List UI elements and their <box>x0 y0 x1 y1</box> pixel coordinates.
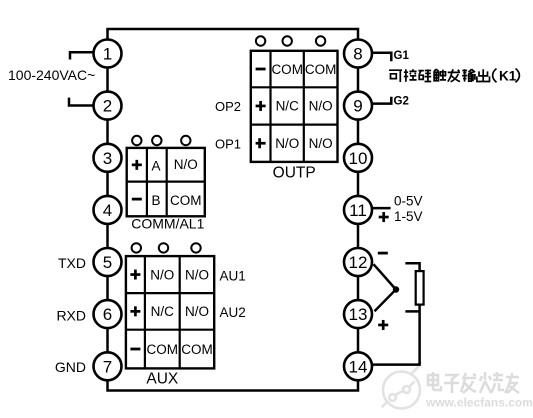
svg-text:13: 13 <box>349 305 368 324</box>
svg-text:10: 10 <box>349 149 368 168</box>
svg-text:8: 8 <box>353 45 362 64</box>
svg-text:7: 7 <box>103 357 112 376</box>
svg-text:N/O: N/O <box>185 267 209 282</box>
svg-text:2: 2 <box>103 97 112 116</box>
svg-text:0-5V: 0-5V <box>394 193 423 208</box>
svg-text:N/O: N/O <box>309 99 333 114</box>
svg-text:COM: COM <box>305 62 337 77</box>
svg-text:N/O: N/O <box>174 157 198 172</box>
svg-text:6: 6 <box>103 305 112 324</box>
svg-text:A: A <box>151 159 160 174</box>
svg-text:100-240VAC~: 100-240VAC~ <box>8 67 95 83</box>
svg-text:12: 12 <box>349 253 368 272</box>
svg-text:OP1: OP1 <box>215 137 241 152</box>
svg-text:N/C: N/C <box>276 99 300 114</box>
svg-text:www.elecfans.com: www.elecfans.com <box>425 396 533 410</box>
svg-text:4: 4 <box>103 201 112 220</box>
svg-text:9: 9 <box>353 97 362 116</box>
svg-text:AUX: AUX <box>146 370 179 387</box>
svg-text:COM: COM <box>147 342 179 357</box>
svg-text:14: 14 <box>349 357 368 376</box>
svg-text:5: 5 <box>103 253 112 272</box>
svg-text:G1: G1 <box>394 50 410 62</box>
svg-text:COMM/AL1: COMM/AL1 <box>131 216 204 232</box>
svg-text:3: 3 <box>103 149 112 168</box>
svg-text:AU1: AU1 <box>220 269 246 284</box>
svg-text:N/C: N/C <box>151 304 175 319</box>
svg-text:N/O: N/O <box>275 136 299 151</box>
svg-text:G2: G2 <box>394 96 409 108</box>
svg-text:COM: COM <box>271 62 303 77</box>
svg-text:N/O: N/O <box>309 136 333 151</box>
svg-text:1-5V: 1-5V <box>394 209 423 224</box>
svg-text:K1: K1 <box>499 69 517 84</box>
svg-text:11: 11 <box>349 201 367 220</box>
svg-text:N/O: N/O <box>185 304 209 319</box>
svg-text:N/O: N/O <box>150 267 174 282</box>
svg-text:1: 1 <box>103 45 112 64</box>
svg-text:TXD: TXD <box>58 255 86 271</box>
svg-text:OUTP: OUTP <box>273 165 316 182</box>
svg-text:OP2: OP2 <box>215 99 241 114</box>
svg-text:RXD: RXD <box>56 307 86 323</box>
svg-text:COM: COM <box>181 342 213 357</box>
svg-text:GND: GND <box>55 359 86 375</box>
svg-text:AU2: AU2 <box>220 305 246 320</box>
svg-text:B: B <box>151 193 160 208</box>
svg-text:COM: COM <box>170 193 202 208</box>
